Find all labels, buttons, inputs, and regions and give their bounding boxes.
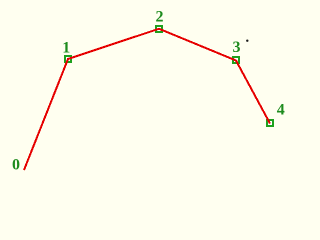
svg-text:1: 1 — [62, 40, 70, 57]
node 3 marker — [233, 57, 239, 63]
stray dot — [246, 40, 248, 42]
node 1 marker — [65, 56, 71, 62]
svg-text:0: 0 — [12, 157, 20, 174]
node 4 marker — [267, 120, 273, 126]
svg-text:3: 3 — [233, 39, 241, 56]
polyline path 0-1-2-3-4 — [24, 29, 270, 170]
node 2 marker — [156, 26, 162, 32]
svg-text:4: 4 — [277, 102, 285, 119]
svg-text:2: 2 — [156, 9, 164, 26]
